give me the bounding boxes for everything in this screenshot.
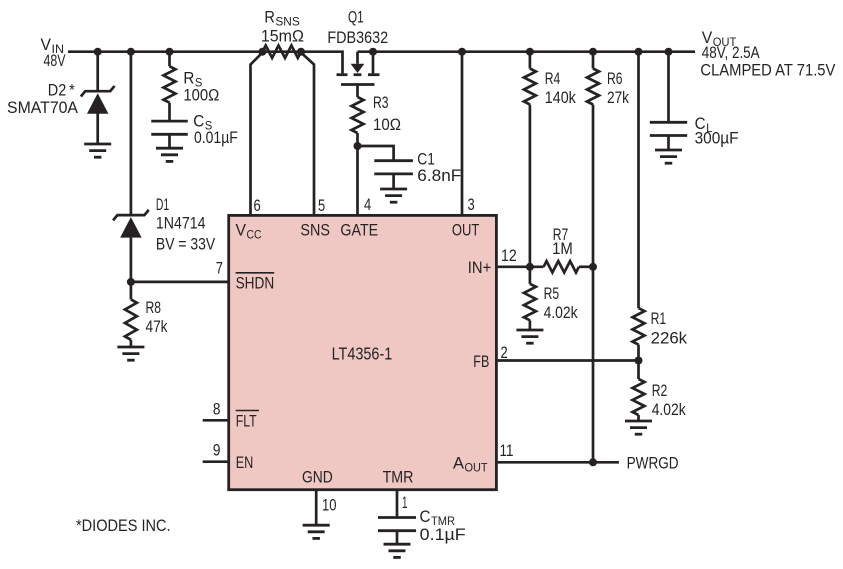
svg-text:6: 6 bbox=[254, 197, 261, 215]
svg-text:0.1µF: 0.1µF bbox=[420, 526, 466, 544]
pin label VCC bbox=[236, 222, 262, 242]
svg-text:48V: 48V bbox=[44, 52, 66, 70]
resistor R5 bbox=[524, 284, 536, 321]
ground below R8 bbox=[117, 347, 144, 360]
svg-text:TMR: TMR bbox=[383, 469, 414, 487]
wire R2 to ground bbox=[637, 415, 640, 421]
pin number 5 bbox=[318, 197, 325, 215]
junction FB/R1/R2 bbox=[635, 357, 643, 365]
node VIN label bbox=[41, 36, 66, 70]
wire pin 10 GND bbox=[315, 490, 318, 526]
label R8 47k bbox=[146, 299, 169, 336]
svg-text:48V, 2.5A: 48V, 2.5A bbox=[702, 44, 760, 62]
svg-text:6.8nF: 6.8nF bbox=[417, 167, 461, 185]
junction rail/RSNS left bbox=[259, 48, 267, 56]
svg-text:C: C bbox=[420, 508, 431, 526]
wire R4 to IN+ node bbox=[529, 105, 532, 267]
svg-text:IN+: IN+ bbox=[468, 259, 492, 277]
wire R1 to FB node bbox=[637, 345, 640, 361]
svg-text:SNS: SNS bbox=[300, 222, 330, 240]
junction IN+/R4/R5 bbox=[526, 263, 534, 271]
pin number 3 bbox=[468, 196, 475, 214]
pin number 2 bbox=[501, 344, 508, 362]
resistor R4 bbox=[524, 69, 536, 105]
resistor R6 bbox=[587, 69, 599, 105]
wire R7 to R6 line bbox=[579, 265, 593, 268]
wire pin 2 FB to R1/R2 node bbox=[496, 359, 638, 362]
wire pin 9 EN stub bbox=[203, 460, 229, 463]
wire rail to R1 bbox=[637, 52, 640, 308]
pin label EN bbox=[236, 454, 254, 472]
resistor RS bbox=[164, 66, 176, 102]
note DIODES INC bbox=[76, 517, 171, 535]
transistor Q1 gate plate bbox=[341, 83, 375, 86]
svg-text:OUT: OUT bbox=[452, 222, 480, 240]
label RSNS 15mΩ bbox=[261, 9, 304, 46]
svg-text:0.01µF: 0.01µF bbox=[194, 129, 238, 147]
node SHDN junction bbox=[127, 278, 135, 286]
svg-text:4: 4 bbox=[364, 196, 371, 214]
pin label GND bbox=[302, 469, 333, 487]
svg-text:R8: R8 bbox=[146, 299, 162, 317]
ground below R2 bbox=[625, 421, 652, 434]
svg-text:FB: FB bbox=[473, 353, 489, 371]
svg-text:9: 9 bbox=[213, 441, 221, 459]
svg-text:R5: R5 bbox=[544, 285, 560, 303]
ground below CS bbox=[156, 148, 183, 161]
wire pin 11 AOUT to PWRGD bbox=[496, 461, 619, 464]
wire pin 8 FLT stub bbox=[203, 419, 229, 422]
ground below C1 bbox=[380, 189, 407, 202]
pin number 7 bbox=[216, 259, 223, 277]
resistor R2 bbox=[633, 379, 645, 415]
svg-text:R: R bbox=[264, 9, 275, 27]
capacitor C1 bbox=[374, 161, 413, 174]
junction rail/CL bbox=[665, 48, 673, 56]
transistor Q1 drain lead bbox=[372, 52, 375, 74]
pin label TMR bbox=[383, 469, 414, 487]
wire pin 3 OUT to rail bbox=[461, 52, 464, 216]
svg-text:11: 11 bbox=[500, 442, 514, 460]
ground below D2 bbox=[84, 144, 111, 157]
pin number 9 bbox=[213, 441, 221, 459]
svg-text:R6: R6 bbox=[607, 70, 623, 88]
wire Q1 gate to R3 bbox=[356, 85, 359, 98]
wire to pin 7 SHDN bbox=[131, 281, 229, 284]
wire RSNS right to pin 5 SNS bbox=[301, 53, 314, 216]
pin label GATE bbox=[340, 222, 378, 240]
svg-text:R1: R1 bbox=[651, 310, 667, 328]
pin number 6 bbox=[254, 197, 261, 215]
wire rail to R4 bbox=[529, 52, 532, 69]
label LT4356-1 bbox=[332, 344, 393, 364]
svg-text:C1: C1 bbox=[417, 150, 435, 168]
wire IN+ node to R5 bbox=[529, 267, 532, 284]
wire C1 to ground bbox=[392, 174, 395, 189]
pin label FB bbox=[473, 353, 489, 371]
svg-text:226k: 226k bbox=[651, 330, 688, 348]
svg-text:*DIODES INC.: *DIODES INC. bbox=[76, 517, 171, 535]
svg-text:LT4356-1: LT4356-1 bbox=[332, 344, 393, 364]
svg-text:1N4714: 1N4714 bbox=[156, 215, 206, 233]
capacitor CL bbox=[650, 122, 687, 135]
wire CTMR to ground bbox=[396, 531, 399, 545]
junction rail/OUT bbox=[458, 48, 466, 56]
svg-text:47k: 47k bbox=[146, 318, 169, 336]
junction R7/R6 bbox=[589, 263, 597, 271]
svg-text:CLAMPED AT 71.5V: CLAMPED AT 71.5V bbox=[700, 62, 835, 80]
wire CS to ground bbox=[168, 134, 171, 148]
svg-text:2: 2 bbox=[501, 344, 508, 362]
junction gate/C1 bbox=[354, 142, 362, 150]
ground below R5 bbox=[516, 330, 543, 343]
svg-text:D2 *: D2 * bbox=[48, 82, 75, 100]
transistor Q1 contact bars bbox=[337, 73, 380, 76]
pin label AOUT bbox=[453, 454, 488, 474]
svg-text:D1: D1 bbox=[156, 196, 169, 214]
svg-text:R3: R3 bbox=[373, 94, 389, 112]
svg-text:SMAT70A: SMAT70A bbox=[7, 99, 78, 117]
svg-text:Q1: Q1 bbox=[348, 9, 364, 27]
op-amp U1 LT4356-1 body bbox=[229, 215, 497, 489]
svg-text:R2: R2 bbox=[652, 382, 668, 400]
resistor R1 bbox=[633, 308, 645, 345]
wire rail to CL bbox=[667, 52, 670, 123]
svg-text:R4: R4 bbox=[545, 70, 561, 88]
ground below CTMR bbox=[384, 544, 411, 557]
svg-text:GATE: GATE bbox=[340, 222, 378, 240]
svg-text:V: V bbox=[236, 222, 247, 240]
junction AOUT/R6 bbox=[589, 458, 597, 466]
wire RS to CS bbox=[168, 103, 171, 121]
pin label SNS bbox=[300, 222, 330, 240]
svg-text:8: 8 bbox=[213, 401, 221, 419]
wire R6 down to AOUT node bbox=[592, 105, 595, 463]
resistor RSNS bbox=[263, 46, 302, 58]
label RS 100Ω bbox=[183, 69, 219, 104]
label R2 4.02k bbox=[652, 382, 687, 419]
junction rail/R1 bbox=[635, 48, 643, 56]
wire CL to ground bbox=[667, 136, 670, 151]
wire pin 1 TMR to CTMR bbox=[396, 490, 399, 518]
capacitor CS bbox=[151, 121, 188, 134]
pin number 4 bbox=[364, 196, 371, 214]
wire rail to R6 bbox=[592, 52, 595, 69]
capacitor CTMR bbox=[378, 518, 416, 531]
resistor R3 bbox=[352, 97, 364, 133]
label D2* SMAT70A bbox=[7, 82, 78, 118]
svg-text:EN: EN bbox=[236, 454, 254, 472]
wire VIN to D1 bbox=[130, 52, 133, 215]
pin number 11 bbox=[500, 442, 514, 460]
pin number 12 bbox=[501, 247, 517, 265]
svg-text:GND: GND bbox=[302, 469, 333, 487]
junction rail/RSNS right bbox=[297, 48, 305, 56]
junction rail/Q1 drain bbox=[369, 48, 377, 56]
label CTMR 0.1µF bbox=[420, 508, 466, 544]
svg-text:7: 7 bbox=[216, 259, 223, 277]
svg-text:PWRGD: PWRGD bbox=[627, 455, 679, 473]
svg-text:300µF: 300µF bbox=[695, 129, 739, 147]
wire VIN to RS bbox=[168, 52, 171, 67]
pin label SHDN with overline bbox=[236, 273, 275, 293]
svg-text:27k: 27k bbox=[607, 89, 630, 107]
resistor R7 bbox=[544, 261, 579, 272]
label Q1 FDB3632 bbox=[327, 9, 388, 48]
svg-text:OUT: OUT bbox=[465, 460, 489, 474]
svg-text:10Ω: 10Ω bbox=[373, 116, 401, 134]
wire node to R8 bbox=[130, 282, 133, 300]
resistor R8 bbox=[125, 299, 137, 339]
svg-text:FDB3632: FDB3632 bbox=[327, 29, 388, 47]
svg-text:5: 5 bbox=[318, 197, 325, 215]
svg-text:100Ω: 100Ω bbox=[183, 87, 219, 105]
svg-text:R: R bbox=[183, 69, 194, 87]
pin label FLT with overline bbox=[236, 411, 259, 431]
svg-text:140k: 140k bbox=[545, 89, 577, 107]
wire FB node to R2 bbox=[637, 361, 640, 380]
wire D1 to SHDN node bbox=[130, 238, 133, 282]
pin label IN+ bbox=[468, 259, 492, 277]
label R4 140k bbox=[545, 70, 577, 107]
svg-text:1M: 1M bbox=[552, 240, 573, 258]
label R1 226k bbox=[651, 310, 688, 348]
junction VIN/D1 bbox=[127, 48, 135, 56]
wire VIN rail left segment with Q1 source bend bbox=[68, 52, 343, 74]
wire R8 to ground bbox=[130, 340, 133, 347]
label R5 4.02k bbox=[544, 285, 579, 322]
svg-text:C: C bbox=[193, 112, 204, 130]
wire R5 to ground bbox=[529, 320, 532, 330]
wire to C1 bbox=[358, 146, 394, 161]
label R6 27k bbox=[607, 70, 630, 107]
svg-text:3: 3 bbox=[468, 196, 475, 214]
ground below CL bbox=[655, 150, 682, 163]
svg-text:4.02k: 4.02k bbox=[544, 304, 579, 322]
svg-text:15mΩ: 15mΩ bbox=[261, 27, 304, 45]
svg-text:A: A bbox=[453, 454, 464, 472]
zener diode D2 bbox=[81, 86, 115, 114]
svg-text:FLT: FLT bbox=[236, 413, 257, 431]
svg-text:CC: CC bbox=[247, 228, 262, 242]
svg-text:1: 1 bbox=[402, 494, 408, 512]
junction VIN/RS bbox=[166, 48, 174, 56]
pin number 1 bbox=[402, 494, 408, 512]
label CS 0.01µF bbox=[193, 112, 238, 147]
label C1 6.8nF bbox=[417, 150, 461, 185]
wire pin 12 IN+ to R7 bbox=[496, 265, 543, 268]
wire VIN rail right segment (VOUT rail) bbox=[358, 50, 696, 53]
junction rail/R6 bbox=[589, 48, 597, 56]
wire VIN to D2 bbox=[96, 52, 99, 91]
zener diode D1 bbox=[113, 210, 149, 238]
label CL 300µF bbox=[695, 115, 739, 147]
wire R3 to pin 4 GATE bbox=[356, 133, 359, 215]
svg-text:SHDN: SHDN bbox=[236, 275, 275, 293]
pin number 10 bbox=[322, 497, 337, 515]
junction rail/R4 bbox=[526, 48, 534, 56]
pin label OUT bbox=[452, 222, 480, 240]
node VOUT labels bbox=[700, 29, 835, 80]
transistor Q1 body line and arrow bbox=[351, 52, 365, 73]
label R7 1M bbox=[552, 226, 573, 258]
pin number 8 bbox=[213, 401, 221, 419]
wire D2 to ground bbox=[96, 113, 99, 144]
svg-text:4.02k: 4.02k bbox=[652, 401, 687, 419]
wire RSNS left to pin 6 VCC bbox=[251, 53, 263, 216]
junction VIN/D2 bbox=[94, 48, 102, 56]
svg-text:12: 12 bbox=[501, 247, 517, 265]
svg-text:BV = 33V: BV = 33V bbox=[156, 235, 215, 253]
ground below pin 10 bbox=[303, 525, 330, 538]
label R3 10Ω bbox=[373, 94, 401, 134]
node PWRGD label bbox=[627, 455, 679, 473]
svg-text:10: 10 bbox=[322, 497, 337, 515]
label D1 1N4714 BV=33V bbox=[156, 196, 215, 253]
